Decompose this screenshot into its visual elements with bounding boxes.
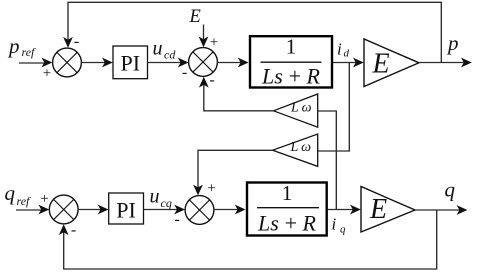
svg-text:E: E [372,48,390,79]
wire E amp to q output [415,209,465,211]
op-amp gain E (top) [364,39,419,87]
svg-text:-: - [71,222,76,239]
arrowhead p output [461,58,472,68]
svg-text:+: + [43,66,51,82]
wire top Lomega output to TR summer bottom [204,79,274,111]
wire top feedback p to TL summer [68,2,441,62]
arrowhead into BL summer bottom [59,224,69,235]
wire PI to TR summer [148,62,187,64]
arrowhead into TR summer left [178,58,189,68]
svg-text:-: - [74,33,79,50]
svg-text:u: u [150,186,160,208]
svg-text:+: + [207,181,215,197]
arrowhead into BL summer left [38,205,49,215]
svg-text:p: p [446,31,459,55]
arrowhead into bottom E amp [350,205,361,215]
arrowhead into TL summer top [63,37,73,48]
arrowhead into bottom PI [98,205,109,215]
wire block to E amp (bottom), i_q node [328,209,359,211]
summing junction TR [189,48,218,77]
node q_ref input wire [16,209,47,211]
gain Lomega (top) [274,94,318,127]
svg-text:Ls + R: Ls + R [261,63,320,88]
svg-text:PI: PI [121,50,141,75]
arrowhead into top 1/(Ls+R) [238,58,249,68]
wire block to E amp (top), i_d node [333,62,362,64]
wire bottom Lomega output to BR summer top [198,150,273,193]
svg-text:PI: PI [116,198,136,223]
svg-text:i: i [337,39,342,58]
svg-text:q: q [5,181,16,205]
arrowhead into BR summer left [174,205,185,215]
wire BR summer to block [214,209,244,211]
wire bottom Lomega input from i_d vertical [318,63,349,151]
arrowhead into top PI [102,58,113,68]
svg-text:L ω: L ω [290,140,312,155]
summing junction BL [49,195,78,224]
wire top Lomega input from i_q vertical [318,111,337,210]
svg-text:Ls + R: Ls + R [257,210,316,235]
summing junction TL [53,48,82,77]
svg-text:-: - [182,64,187,81]
svg-text:E: E [369,194,387,225]
svg-text:u: u [153,38,163,60]
arrowhead into TR summer top [199,37,209,48]
svg-text:p: p [7,34,20,58]
wire E down into TR summer [203,25,205,46]
svg-text:-: - [174,211,179,228]
svg-text:cq: cq [161,196,172,210]
wire TR summer to block [217,62,246,64]
svg-text:L ω: L ω [290,101,312,116]
svg-text:q: q [445,177,456,201]
block PI (top) [113,46,148,79]
wire bottom feedback q to BL summer [64,210,437,269]
arrowhead into BR summer top [193,185,203,196]
block 1/(Ls+R) bottom [247,183,327,236]
wire E amp to p output [419,62,470,64]
svg-text:E: E [189,7,201,27]
block 1/(Ls+R) top [250,36,332,87]
wire BL summer to PI [78,209,107,211]
svg-text:+: + [40,191,48,207]
summing junction BR [185,196,214,225]
node p_ref input wire [19,62,50,64]
wire PI to BR summer [144,209,184,211]
block PI (bottom) [109,193,144,224]
arrowhead into bottom 1/(Ls+R) [235,205,246,215]
svg-text:+: + [210,35,218,51]
arrowhead into TR summer bottom [199,77,209,88]
svg-text:cd: cd [164,48,176,62]
wire TL summer to PI [81,62,111,64]
svg-text:1: 1 [282,181,293,205]
svg-text:d: d [344,48,350,60]
gain Lomega (bottom) [273,134,318,166]
arrowhead into TL summer left [42,58,53,68]
svg-text:ref: ref [17,194,32,208]
svg-text:ref: ref [22,45,37,59]
svg-text:i: i [332,214,337,233]
op-amp gain E (bottom) [361,187,415,233]
arrowhead into top E amp [353,58,364,68]
arrowhead q output [457,205,468,215]
svg-text:1: 1 [286,35,297,59]
svg-text:q: q [340,224,346,236]
